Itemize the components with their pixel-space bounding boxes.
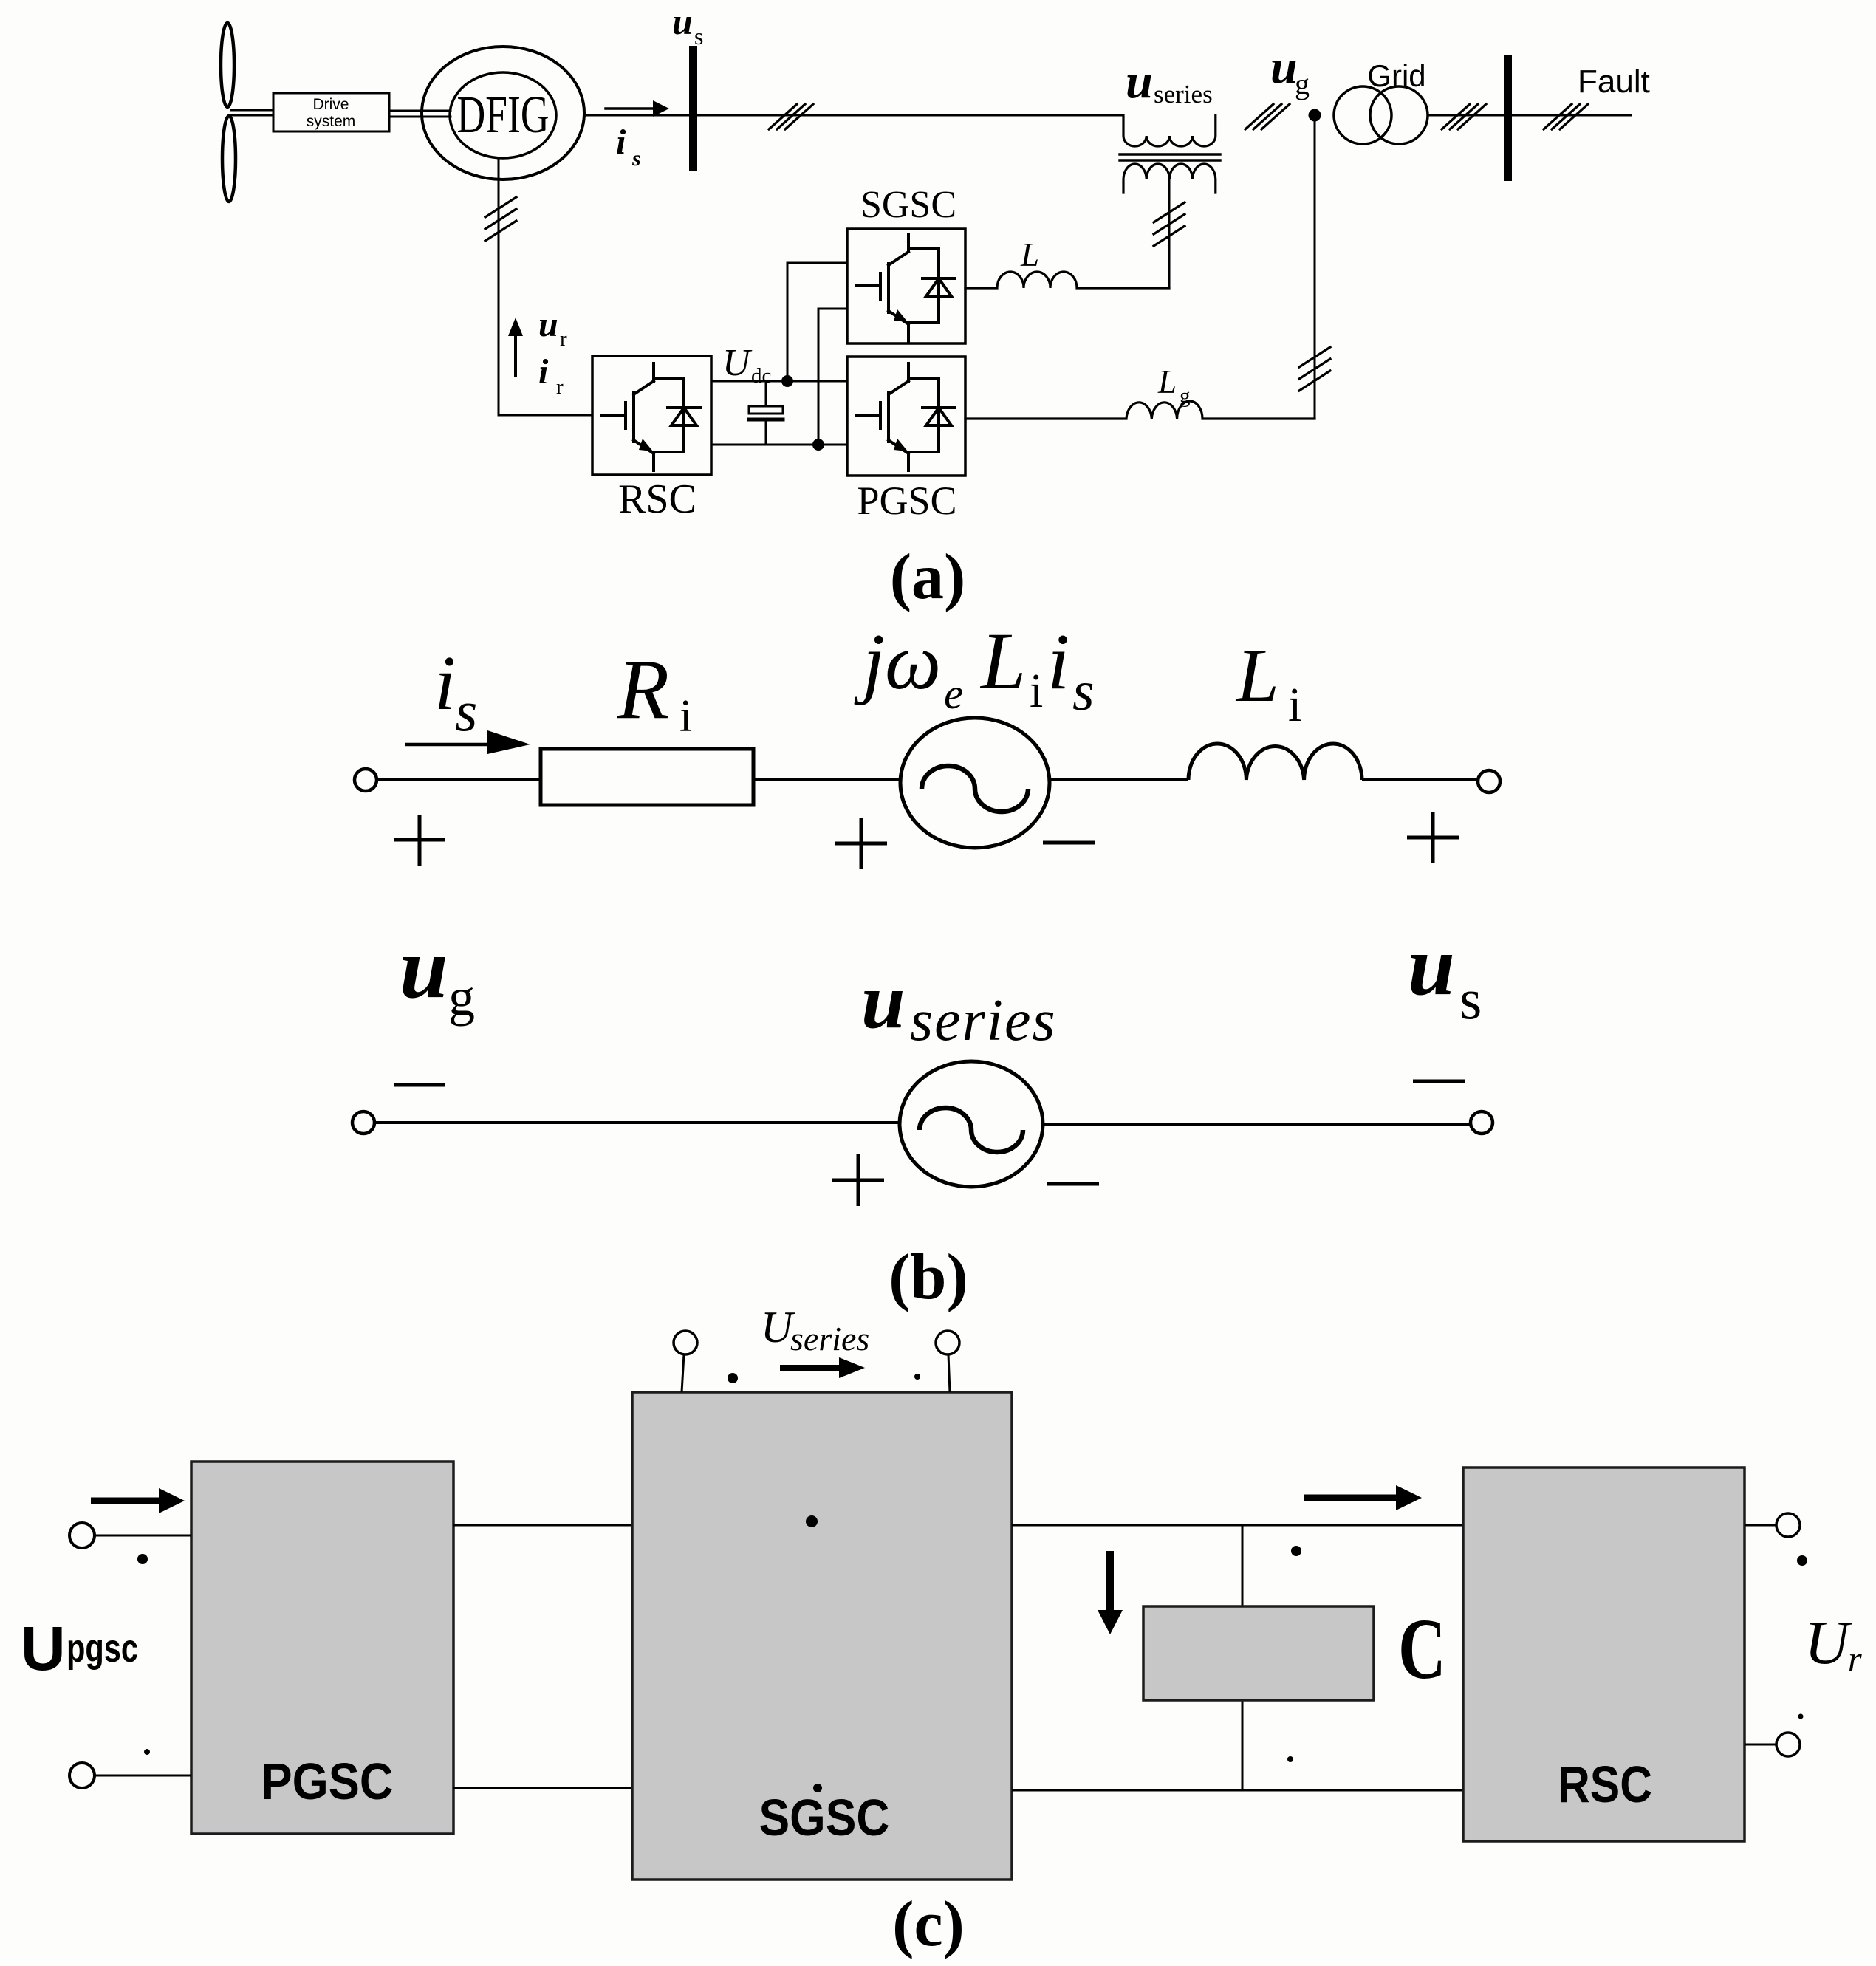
hash after fault bus (1544, 104, 1588, 129)
svg-text:(c): (c) (892, 1888, 965, 1960)
polarity dot useries right (914, 1374, 920, 1380)
svg-text:r: r (556, 375, 564, 399)
svg-text:DFIG: DFIG (457, 85, 550, 144)
svg-text:RSC: RSC (1558, 1756, 1652, 1813)
stator wire (584, 114, 1123, 117)
inductor L (965, 272, 1169, 288)
wire (377, 778, 541, 781)
svg-text:series: series (1154, 80, 1213, 109)
source useries (900, 1061, 1043, 1187)
svg-text:Drive: Drive (312, 96, 349, 113)
svg-text:u: u (1126, 55, 1153, 109)
node dc- junction (812, 439, 824, 451)
wire dc- rail (711, 444, 847, 446)
hash stator wire (769, 104, 813, 129)
arrow is (606, 107, 653, 110)
wire terminal lead left (682, 1354, 684, 1392)
svg-text:RSC: RSC (618, 476, 696, 522)
wire terminal to PGSC bottom (95, 1775, 191, 1777)
svg-text:pgsc: pgsc (66, 1626, 138, 1671)
svg-text:SGSC: SGSC (759, 1789, 890, 1846)
polarity dot pgsc top (137, 1554, 148, 1564)
wire terminal lead right (948, 1354, 950, 1392)
svg-text:u: u (538, 305, 558, 344)
inductor Li (1188, 744, 1362, 780)
arrow useries (780, 1365, 841, 1371)
svg-text:C: C (1398, 1600, 1446, 1697)
svg-text:s: s (1072, 660, 1095, 722)
bus bar us (689, 46, 697, 171)
arrow current into capacitor (1106, 1551, 1114, 1610)
svg-text:i: i (434, 640, 456, 726)
hash secondary tap wire (1154, 202, 1185, 246)
arrow power flow into PGSC (91, 1498, 159, 1504)
svg-text:U: U (1804, 1609, 1853, 1677)
svg-text:s: s (1459, 967, 1482, 1031)
terminal useries left (674, 1331, 697, 1354)
svg-text:i: i (1288, 678, 1301, 732)
polarity dot rotor bottom (1798, 1714, 1804, 1719)
wire ug node to Lg (1314, 115, 1316, 419)
series transformer secondary (1123, 164, 1216, 193)
wire (1362, 778, 1478, 781)
wire dc- to SGSC (818, 309, 847, 445)
polarity dot capacitor top (1291, 1546, 1301, 1556)
hash grid-fault (1442, 104, 1486, 129)
svg-text:U: U (722, 342, 753, 384)
SGSC block (632, 1392, 1012, 1880)
svg-text:i: i (1047, 618, 1069, 706)
svg-text:u: u (1270, 40, 1298, 94)
hash rotor wire (485, 197, 516, 241)
minus left (394, 1083, 445, 1087)
RSC converter box (592, 356, 711, 475)
hash before ug (1245, 104, 1290, 129)
svg-text:(b): (b) (889, 1241, 968, 1313)
svg-text:r: r (560, 327, 567, 351)
drive system box (273, 93, 389, 131)
terminal rotor top (1776, 1513, 1800, 1537)
svg-text:L: L (1020, 236, 1039, 273)
wire (753, 778, 901, 781)
svg-text:e: e (944, 669, 963, 718)
svg-text:jω: jω (854, 618, 941, 706)
svg-text:g: g (448, 967, 475, 1027)
source jweLiis (900, 718, 1050, 848)
arrow ur ir (514, 332, 517, 376)
hash ug vertical wire (1299, 347, 1330, 391)
wire SGSC to RSC top (1012, 1524, 1463, 1527)
svg-text:L: L (1235, 633, 1279, 718)
svg-text:U: U (21, 1614, 66, 1683)
series transformer primary (1123, 115, 1216, 146)
wind turbine blade lower (222, 116, 236, 202)
svg-text:s: s (455, 679, 477, 743)
wire rotor from DFIG to RSC (499, 158, 592, 415)
wire transformer secondary tap (1168, 179, 1171, 288)
wire (1050, 778, 1188, 781)
svg-text:s: s (694, 23, 703, 49)
wire PGSC to SGSC bottom (453, 1787, 632, 1789)
svg-text:u: u (672, 1, 693, 42)
polarity dot sgsc top (806, 1515, 818, 1527)
polarity dot pgsc bottom (144, 1749, 150, 1755)
series transformer core (1120, 154, 1220, 160)
plus left (394, 815, 445, 866)
svg-text:R: R (617, 643, 669, 736)
svg-text:series: series (910, 988, 1057, 1053)
node ug dot (1309, 109, 1321, 122)
right terminal (1478, 770, 1500, 792)
svg-text:s: s (631, 146, 641, 171)
node dc+ junction (781, 375, 793, 387)
plus right (1407, 812, 1459, 863)
left terminal (352, 1112, 374, 1134)
svg-text:i: i (616, 123, 626, 162)
wire (1043, 1123, 1471, 1126)
polarity dot useries left (728, 1373, 738, 1383)
svg-text:(a): (a) (890, 541, 966, 613)
svg-text:Fault: Fault (1578, 64, 1650, 100)
DFIG generator (422, 47, 584, 179)
svg-text:u: u (400, 919, 448, 1016)
terminal useries right (936, 1331, 959, 1354)
wind turbine blade upper (221, 23, 234, 107)
svg-text:SGSC: SGSC (860, 184, 956, 226)
plus at source left (835, 818, 887, 869)
SGSC converter box (847, 229, 965, 343)
polarity dot sgsc bottom (813, 1784, 822, 1792)
terminal pgsc input bottom (69, 1763, 95, 1788)
svg-text:g: g (1295, 67, 1310, 100)
wire dc+ to SGSC (787, 263, 847, 381)
Grid transformer (1334, 86, 1391, 144)
wire PGSC to SGSC top (453, 1524, 632, 1527)
capacitor C block (1143, 1606, 1374, 1700)
wire RSC to terminal top (1745, 1524, 1776, 1527)
svg-text:g: g (1180, 384, 1191, 408)
wire terminal to PGSC top (95, 1535, 191, 1537)
polarity dot capacitor bottom (1287, 1756, 1293, 1762)
arrow power flow into RSC (1304, 1495, 1396, 1501)
minus at source right (1043, 841, 1095, 845)
svg-text:u: u (861, 958, 906, 1045)
PGSC converter box (847, 357, 965, 476)
wire dc+ rail (711, 380, 847, 383)
terminal pgsc input top (69, 1523, 95, 1548)
terminal rotor bottom (1776, 1733, 1800, 1756)
svg-text:i: i (679, 691, 692, 741)
svg-text:u: u (1408, 919, 1455, 1013)
svg-text:PGSC: PGSC (857, 479, 956, 523)
fault bus bar (1504, 55, 1512, 181)
shaft to generator (389, 111, 451, 117)
RSC block (1463, 1467, 1745, 1841)
svg-text:system: system (307, 113, 356, 130)
dc link capacitor (765, 381, 767, 406)
svg-text:r: r (1848, 1640, 1862, 1679)
wire (374, 1121, 900, 1124)
resistor Ri (541, 749, 753, 805)
wire RSC to terminal bottom (1745, 1744, 1776, 1746)
svg-text:L: L (1157, 363, 1177, 400)
turbine shaft (231, 110, 273, 115)
minus right (1413, 1080, 1465, 1083)
minus at useries source right (1047, 1182, 1099, 1186)
arrow is (405, 743, 489, 747)
svg-text:i: i (538, 352, 549, 391)
svg-text:PGSC: PGSC (261, 1753, 394, 1810)
plus at useries source left (832, 1154, 884, 1206)
svg-text:dc: dc (751, 364, 771, 388)
left terminal top (355, 769, 377, 791)
polarity dot rotor top (1797, 1555, 1807, 1566)
wire SGSC to RSC bottom (1012, 1789, 1463, 1792)
wire capacitor branch (1242, 1525, 1244, 1790)
inductor Lg (965, 401, 1315, 419)
svg-text:i: i (1030, 664, 1043, 718)
PGSC block (191, 1462, 453, 1834)
wire grid to fault bus (1428, 114, 1631, 117)
right terminal (1471, 1112, 1493, 1134)
svg-text:L: L (979, 616, 1026, 706)
svg-text:Grid: Grid (1367, 58, 1425, 93)
svg-text:series: series (790, 1320, 869, 1357)
